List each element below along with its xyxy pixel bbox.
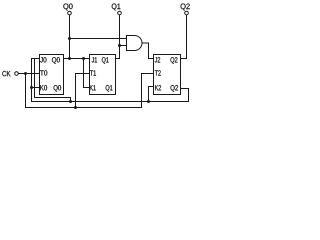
wire Q1 output stub	[116, 58, 120, 60]
label Q2bar pin	[170, 85, 178, 92]
wire K0 stub	[32, 87, 40, 89]
node dot K1 branch	[82, 57, 85, 60]
node dot h1 joins h2	[69, 100, 72, 103]
label Q2 terminal	[181, 4, 190, 11]
label J1 pin	[92, 57, 97, 62]
label Q0 pin	[52, 57, 60, 64]
label CK	[2, 71, 10, 76]
wire Q2 output stub	[181, 58, 187, 60]
wire AND output to J2	[142, 43, 154, 59]
wire Q2bar stub down to rail h2	[181, 89, 189, 102]
label T0 pin	[40, 70, 47, 75]
wire Q1 riser to terminal	[119, 15, 121, 59]
wire clock trunk down	[25, 74, 27, 108]
label Q2 pin	[170, 57, 177, 64]
wire riser h2 to K2	[149, 87, 154, 102]
label Q1 terminal	[112, 4, 121, 11]
wire J0 stub	[32, 58, 40, 60]
wire Q0 output to J1	[64, 58, 90, 60]
terminal Q1 circle	[118, 11, 122, 15]
node dot K2 junction	[147, 100, 150, 103]
wire Q0 riser to terminal	[69, 15, 71, 59]
label Q1bar pin	[106, 85, 113, 92]
wire CK input to T0	[19, 73, 40, 75]
node dot Q0 output junction	[68, 57, 71, 60]
flip-flop U2 box	[90, 55, 116, 95]
gate U4 AND	[127, 36, 143, 51]
label J2 pin	[155, 57, 160, 62]
terminal Q2 circle	[185, 11, 189, 15]
node dot Q0 AND branch	[68, 37, 71, 40]
wire J0-K0 drop to rail h2	[31, 59, 33, 102]
node dot CK junction	[24, 72, 27, 75]
label Q0 terminal	[63, 4, 72, 11]
wire K1 drop	[84, 59, 90, 88]
terminal CK circle	[15, 72, 19, 76]
label K0 pin	[40, 85, 47, 90]
wire clock riser to T1	[76, 74, 90, 108]
wire Q1 branch to AND input 2	[120, 45, 127, 47]
label Q0bar pin	[54, 85, 61, 92]
label T2 pin	[155, 70, 161, 75]
node dot K0 junction	[30, 86, 33, 89]
node dot Q1 AND branch	[118, 44, 121, 47]
wire Q0 branch to AND input 1	[70, 38, 127, 40]
label K1 pin	[90, 85, 96, 90]
wire rail h1	[35, 98, 71, 102]
wire clock bottom rail h3	[26, 107, 142, 109]
wire second riser at J0	[34, 59, 36, 98]
wire clock riser to T2	[142, 74, 154, 108]
label J0 pin	[40, 57, 46, 62]
flip-flop U3 box	[154, 55, 181, 95]
wire Q2 riser to terminal	[186, 15, 188, 59]
label K2 pin	[155, 85, 161, 90]
wire feedback rail h2	[32, 101, 189, 103]
label T1 pin	[90, 70, 96, 75]
node dot T1 clock junction	[74, 106, 77, 109]
label Q1 pin	[102, 57, 109, 64]
flip-flop U1 box	[40, 55, 64, 95]
terminal Q0 circle	[68, 11, 72, 15]
